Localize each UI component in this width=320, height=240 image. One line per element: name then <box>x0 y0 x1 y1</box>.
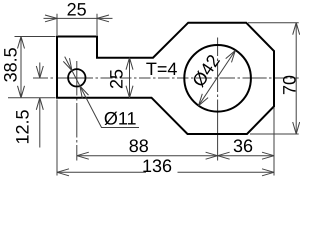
svg-text:12.5: 12.5 <box>13 109 33 144</box>
dim 38.5 line <box>18 37 25 98</box>
extension line 136/36 right <box>273 108 275 176</box>
extension line 38.5 top <box>15 36 56 38</box>
svg-text:70: 70 <box>279 75 299 95</box>
svg-text:25: 25 <box>107 69 127 89</box>
centerline vertical big hole <box>217 38 219 161</box>
hole D42 <box>184 45 251 112</box>
leader D11 <box>63 57 139 128</box>
dim 12.5 line <box>36 63 43 148</box>
svg-text:25: 25 <box>67 0 87 20</box>
hole D11 <box>68 69 85 86</box>
dim D42 diagonal line with arrows <box>199 51 236 106</box>
dim 136 line (broken at text) <box>57 169 274 176</box>
dim 25 top line <box>44 15 113 22</box>
dim 70 line <box>293 23 300 134</box>
extension line 38.5/12.5 bottom <box>8 97 56 99</box>
extension line top dim 25 right <box>96 14 98 35</box>
svg-text:136: 136 <box>142 156 172 176</box>
extension line 70 bottom <box>250 133 299 135</box>
svg-text:88: 88 <box>129 136 149 156</box>
svg-text:T=4: T=4 <box>146 59 178 79</box>
extension line 70 top <box>248 22 299 24</box>
dim 88 line <box>77 152 218 159</box>
svg-text:Ø11: Ø11 <box>104 109 137 129</box>
extension line top dim 25 left <box>56 14 58 35</box>
svg-text:36: 36 <box>233 136 253 156</box>
centerline vertical small hole <box>76 61 78 161</box>
dim 25 mid line <box>126 58 133 98</box>
svg-text:38.5: 38.5 <box>1 47 21 82</box>
dim 36 line <box>218 152 274 159</box>
part outline <box>57 23 274 134</box>
centerline horizontal through both holes <box>33 77 299 79</box>
extension line 136 left <box>56 100 58 176</box>
